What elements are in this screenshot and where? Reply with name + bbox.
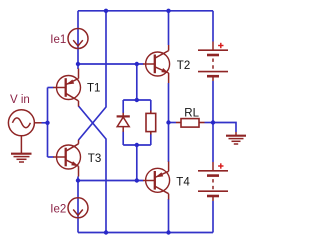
wire T2 collector to top rail [168,11,170,45]
transistor T4 [143,162,170,200]
wire RL to battery column [205,122,214,124]
junction node T2 base [135,62,139,66]
wire diode bottom lead [122,132,124,146]
wire diode top lead [122,100,124,113]
junction node battery column [211,120,215,124]
ground right of RL [226,132,246,144]
transistor T3 [53,140,81,177]
diode D1 [117,113,130,132]
wire Vin source to node [42,122,48,124]
wire bias bottom to T4 base node [136,145,138,181]
resistor RL [176,119,205,128]
transistor T2 [143,45,170,83]
junction node output [166,120,170,124]
wire resistor bottom lead [150,134,152,145]
voltage source V in [8,110,41,154]
battery B1 plus sign [218,43,223,48]
wire resistor top lead [150,100,152,111]
battery B1 [198,42,228,82]
wire node A to T2 base [78,63,144,65]
wire top rail to battery B1 [212,11,214,42]
svg-text:Ie2: Ie2 [50,204,66,216]
svg-text:T1: T1 [87,83,100,95]
wire top rail [78,10,213,12]
junction node bias top [135,98,139,102]
wire Vin node vertical T1 base to T3 base [47,88,49,158]
junction node A T1 emitter [76,62,80,66]
wire T1 collector to bottom rail (crossing) [79,106,107,233]
wire battery column to right ground [213,123,236,133]
wire bias top row [123,99,151,101]
svg-text:T4: T4 [176,176,190,188]
wire top rail to T3 collector (crossing) [79,11,107,140]
wire output node to RL [169,122,177,124]
svg-text:Ie1: Ie1 [50,34,66,46]
svg-text:T2: T2 [177,60,190,72]
wire bias bottom row [123,144,151,146]
battery B2 [198,162,228,201]
junction node T4 base [135,178,139,182]
wire T2 base node down to bias top [136,64,138,100]
svg-text:RL: RL [184,108,199,120]
svg-text:V in: V in [10,94,30,106]
junction node V in [45,121,49,125]
ground below V in [11,154,32,162]
current source Ie1 [68,29,88,49]
wire T2 emitter to output node to T4 emitter [168,83,170,162]
junction node top rail x168 [166,9,170,13]
resistor R1 (bias) [146,111,156,135]
junction node bottom rail x168 [166,230,170,234]
wire bottom rail [78,232,213,234]
wire T3 node to T4 base [78,180,144,182]
battery B2 plus sign [218,163,223,168]
wire bottom rail to battery B2 [212,201,214,233]
wire T4 collector to bottom rail [168,199,170,233]
current source Ie2 [68,198,88,218]
junction node T3 emitter [76,178,80,182]
junction node bottom rail x106 [104,230,108,234]
wire T3 emitter node through Ie2 to bottom rail [77,177,79,233]
wire T1 base stub [48,87,54,89]
svg-text:T3: T3 [88,153,101,165]
transistor T1 [53,69,81,107]
wire top rail through Ie1 to node A [77,11,79,69]
wire between batteries [212,81,214,162]
junction node top rail x106 [104,9,108,13]
junction node bias bottom [135,143,139,147]
wire T3 base stub [48,156,54,158]
